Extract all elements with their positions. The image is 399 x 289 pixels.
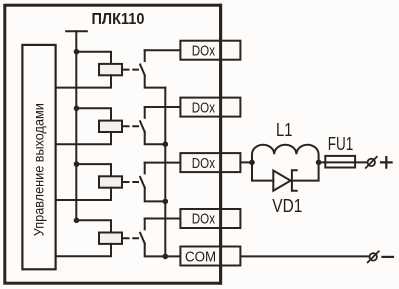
svg-text:VD1: VD1 (272, 196, 302, 216)
relay coil K2 (99, 121, 122, 132)
contact K3.1 lever (140, 177, 145, 188)
svg-text:Управление выходами: Управление выходами (31, 103, 47, 236)
junction on supply bus (74, 218, 80, 224)
wire: COM to minus terminal (240, 255, 369, 257)
PLC enclosure ПЛК110 (5, 5, 221, 283)
junction on COM bus (163, 254, 169, 260)
wire: contact K3.1 common to COM bus (145, 188, 166, 202)
contact K3.1 fixed (144, 163, 146, 174)
junction on COM bus (163, 199, 169, 205)
wire: contact K1.1 to DO1 (145, 49, 181, 51)
junction on COM bus (163, 141, 169, 147)
contact K4.1 lever (140, 233, 145, 244)
wire: contact K4.1 common to COM bus (145, 243, 166, 256)
wire: coil K4 return to control box (56, 244, 111, 256)
svg-text:FU1: FU1 (328, 134, 354, 154)
contact K2.1 fixed (144, 107, 146, 118)
wire: contact K2.1 to DO2 (145, 106, 181, 108)
junction on supply bus (74, 106, 80, 112)
plus terminal circle (368, 159, 375, 166)
relay coil K1 (99, 64, 122, 75)
terminal COM (180, 247, 240, 266)
contact K1.1 lever (140, 65, 145, 76)
relay coil K3 (99, 176, 122, 187)
coil supply bus (75, 31, 77, 220)
wire: contact K2.1 common to COM bus (145, 132, 166, 144)
COM bus (165, 88, 180, 257)
wire: contact K3.1 to DO3 (145, 162, 181, 164)
contact K1.1 fixed (144, 50, 146, 61)
plus terminal slash (366, 157, 377, 168)
wire: contact K4.1 to DO4 (145, 218, 181, 220)
mechanical link K1 (124, 69, 138, 71)
wire: node B to plus terminal (319, 161, 368, 163)
inductor L1 (252, 145, 319, 163)
svg-text:L1: L1 (276, 120, 293, 140)
control box Управление выходами (22, 45, 55, 269)
wire: DO3 to load node A (240, 161, 252, 163)
wire: coil K3 return to control box (56, 188, 111, 200)
svg-text:DOx: DOx (192, 100, 216, 116)
fuse FU1 (325, 156, 355, 168)
wire: feed to coil K1 (77, 52, 112, 64)
svg-text:DOx: DOx (192, 43, 216, 59)
wire: coil K2 return to control box (56, 132, 111, 144)
terminal DO1 (180, 41, 240, 60)
wire: feed to coil K2 (77, 108, 112, 120)
node A junction (249, 160, 255, 166)
minus terminal slash (368, 251, 379, 262)
terminal DO4 (180, 209, 240, 228)
svg-text:DOx: DOx (192, 156, 216, 172)
relay coil K4 (99, 233, 122, 244)
svg-text:ПЛК110: ПЛК110 (92, 11, 145, 28)
wire: coil K1 return to control box (56, 75, 111, 87)
supply rail cap (66, 30, 87, 32)
wire: feed to coil K4 (77, 220, 112, 232)
diode VD1 cathode bar (292, 170, 297, 190)
minus sign (383, 256, 394, 258)
minus terminal circle (370, 253, 377, 260)
PLC right border over terminals (219, 5, 222, 283)
diode VD1 triangle (273, 171, 290, 191)
wire: node A down to diode branch (252, 162, 273, 180)
junction on supply bus (74, 49, 80, 55)
wire: cathode to node B (292, 162, 319, 180)
mechanical link K4 (124, 237, 138, 239)
junction on supply bus (74, 161, 80, 167)
wire: contact K1.1 common to COM bus (145, 75, 166, 88)
mechanical link K2 (124, 125, 138, 127)
mechanical link K3 (124, 181, 138, 183)
terminal DO3 (180, 153, 240, 172)
wire: feed to coil K3 (77, 164, 112, 176)
node B junction (316, 160, 322, 166)
terminal DO2 (180, 98, 240, 117)
contact K2.1 lever (140, 121, 145, 132)
plus sign (381, 157, 392, 168)
svg-text:COM: COM (185, 250, 216, 266)
svg-text:DOx: DOx (192, 212, 216, 228)
contact K4.1 fixed (144, 219, 146, 230)
